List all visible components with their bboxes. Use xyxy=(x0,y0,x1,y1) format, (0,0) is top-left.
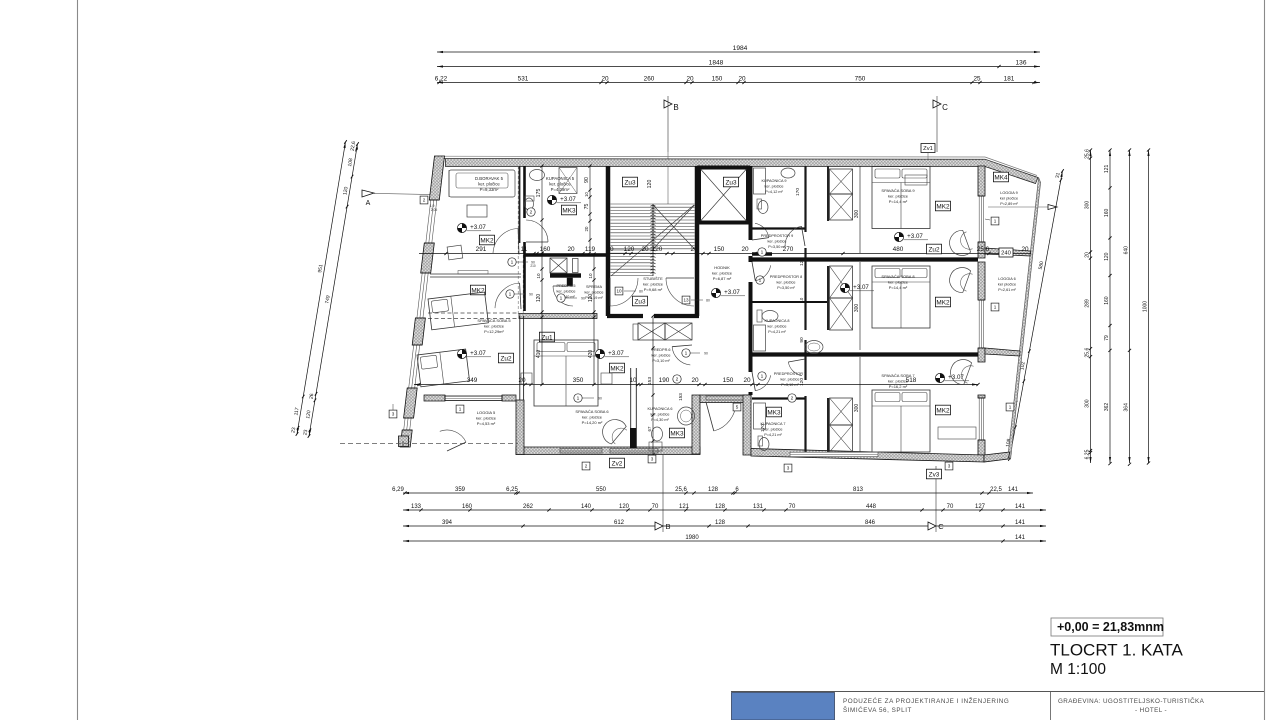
kupaonica8 wc xyxy=(762,311,778,322)
svg-text:2: 2 xyxy=(530,210,533,216)
kupaonica5 wc xyxy=(525,198,534,210)
vert dim line x594 10/120/420 xyxy=(593,254,595,385)
section marker B bottom xyxy=(655,522,663,530)
svg-text:11: 11 xyxy=(521,246,528,253)
closet x room9 xyxy=(830,169,853,194)
svg-text:75: 75 xyxy=(584,204,590,210)
svg-text:HODNIK: HODNIK xyxy=(714,265,730,270)
svg-text:136: 136 xyxy=(1015,59,1026,66)
svg-text:ker. pločice: ker. pločice xyxy=(765,184,784,188)
svg-text:120: 120 xyxy=(624,246,635,253)
tags stair doors xyxy=(615,287,623,295)
svg-text:ker. pločice: ker. pločice xyxy=(484,323,505,328)
svg-text:P=3,10 m²: P=3,10 m² xyxy=(781,383,799,387)
svg-text:2,05: 2,05 xyxy=(431,208,438,212)
svg-text:+3.07: +3.07 xyxy=(853,284,869,291)
svg-text:P=14,4 m²: P=14,4 m² xyxy=(889,199,908,204)
svg-text:150: 150 xyxy=(714,246,725,253)
svg-text:1: 1 xyxy=(459,407,462,412)
loggia5 top wall hatched xyxy=(424,395,445,401)
svg-text:Zu3: Zu3 xyxy=(624,179,635,186)
vert dims 90/10/75/20 x590 xyxy=(589,166,591,253)
svg-text:P=16,2 m²: P=16,2 m² xyxy=(889,384,908,389)
svg-text:MK3: MK3 xyxy=(767,409,781,416)
wall rooms8/7 divider y354 xyxy=(752,352,978,356)
kupaonica9 tub xyxy=(754,168,766,194)
svg-text:349: 349 xyxy=(467,377,478,384)
tag circle 1 predpr5 xyxy=(557,294,565,302)
svg-text:MK3: MK3 xyxy=(670,430,684,437)
svg-text:120: 120 xyxy=(647,180,653,189)
svg-text:25,6: 25,6 xyxy=(1085,149,1091,159)
svg-text:+3.07: +3.07 xyxy=(724,289,740,296)
svg-text:750: 750 xyxy=(855,75,866,82)
svg-text:1: 1 xyxy=(511,260,514,266)
closet x room7 xyxy=(830,398,853,425)
svg-text:M 1:100: M 1:100 xyxy=(1050,661,1106,678)
wall x521 lower soba5/soba6 double line xyxy=(519,316,521,400)
bottom dim chain 1 xyxy=(403,492,1033,494)
bottom dim chain 3 xyxy=(403,525,1046,527)
svg-text:141: 141 xyxy=(1015,520,1026,526)
svg-text:90: 90 xyxy=(598,397,602,401)
level marker room7 xyxy=(935,373,944,382)
svg-text:- HOTEL -: - HOTEL - xyxy=(1135,707,1167,714)
svg-text:141: 141 xyxy=(1015,504,1026,510)
svg-text:3: 3 xyxy=(787,466,790,471)
wall corridor bottom y316 black part xyxy=(607,314,643,318)
svg-text:20: 20 xyxy=(567,246,575,253)
svg-text:120: 120 xyxy=(619,504,630,510)
tag 3 left end xyxy=(389,410,397,418)
svg-text:612: 612 xyxy=(614,520,625,526)
label Zu1 xyxy=(539,332,554,342)
svg-text:2: 2 xyxy=(423,198,426,203)
right dim chain 1 xyxy=(1090,150,1092,463)
svg-text:P=6,87 m²: P=6,87 m² xyxy=(713,276,732,281)
svg-text:127: 127 xyxy=(975,504,986,510)
titleblock logo blue xyxy=(732,693,835,720)
desk room9 xyxy=(905,175,927,185)
svg-text:D.BORAVAK 5: D.BORAVAK 5 xyxy=(475,176,504,181)
door arc middle column xyxy=(553,286,573,306)
svg-text:20: 20 xyxy=(686,75,694,82)
nightstand tilted on chain xyxy=(447,245,463,260)
outer wall right loggia band xyxy=(978,166,985,196)
main dim chain y253 xyxy=(419,253,1031,255)
loggia5 right wall xyxy=(516,400,524,455)
kupaonica9 sink xyxy=(781,168,795,178)
svg-text:ker. pločice: ker. pločice xyxy=(768,239,787,243)
tag circle 1 soba6 xyxy=(574,394,582,402)
svg-text:2: 2 xyxy=(791,396,794,402)
svg-text:300: 300 xyxy=(854,304,860,313)
svg-text:ker. pločice: ker. pločice xyxy=(768,324,787,328)
vert dim 300 room8 xyxy=(859,262,861,350)
vert dim line x653 153/67 xyxy=(652,316,654,455)
svg-text:P=9,33m²: P=9,33m² xyxy=(480,187,499,192)
svg-text:P=4,53 m²: P=4,53 m² xyxy=(477,421,496,426)
svg-text:25,6: 25,6 xyxy=(675,487,687,493)
svg-text:ker. pločice: ker. pločice xyxy=(764,427,783,431)
level marker soba6 xyxy=(595,349,604,358)
section marker A left xyxy=(362,190,374,197)
bottom dim chain 2 xyxy=(403,509,1046,511)
svg-text:1000: 1000 xyxy=(1143,301,1149,312)
bed lower soba5 xyxy=(417,349,470,387)
section line B through landing xyxy=(667,152,669,204)
svg-text:ker. pločice: ker. pločice xyxy=(652,353,671,357)
svg-text:90: 90 xyxy=(584,177,590,183)
svg-text:128: 128 xyxy=(708,487,719,493)
svg-text:SPAVAĆA SOBA 6: SPAVAĆA SOBA 6 xyxy=(575,409,609,414)
svg-text:ker. pločice: ker. pločice xyxy=(712,270,733,275)
svg-text:170: 170 xyxy=(795,188,801,196)
svg-text:LOGGIA 5: LOGGIA 5 xyxy=(477,410,496,415)
svg-text:141: 141 xyxy=(1015,535,1026,541)
wall corridor right x750 xyxy=(749,166,753,240)
svg-text:SPAVAĆA SOBA 9: SPAVAĆA SOBA 9 xyxy=(881,188,915,193)
tag 2 bottom xyxy=(582,462,590,470)
outer wall top xyxy=(436,159,1038,184)
tag circle 1 predpr6 xyxy=(682,349,690,357)
loggia5 dashed open edge xyxy=(340,443,518,445)
vert dim line x542 10/120/410 xyxy=(541,254,543,385)
svg-text:+3.07: +3.07 xyxy=(470,350,486,357)
tag circle 2 kupaonica7 xyxy=(788,394,796,402)
wall corridor bottom y316 hatched part xyxy=(519,314,597,319)
sheet left border xyxy=(77,0,79,720)
svg-text:13: 13 xyxy=(683,298,689,303)
svg-text:20: 20 xyxy=(743,377,751,384)
vert dim 175 x542 xyxy=(541,166,543,253)
svg-text:C: C xyxy=(938,522,944,531)
label MK2 room7 xyxy=(935,405,950,415)
kupaonica6 sink xyxy=(678,407,695,425)
svg-text:MK2: MK2 xyxy=(610,365,624,372)
svg-text:90: 90 xyxy=(704,352,708,356)
svg-text:210: 210 xyxy=(530,264,536,268)
svg-text:STUBIŠTE: STUBIŠTE xyxy=(643,276,663,281)
wall bathroom5 bottom y255 xyxy=(524,254,608,257)
right slanted dim chain 31/580/102/156/108 xyxy=(1010,171,1063,459)
bathroom7 top wall xyxy=(752,397,805,399)
svg-text:P=12,29m²: P=12,29m² xyxy=(484,329,504,334)
kupaonica6 wc xyxy=(652,427,663,441)
svg-text:1: 1 xyxy=(577,396,580,402)
svg-text:P=3,50 m²: P=3,50 m² xyxy=(768,245,786,249)
svg-text:141: 141 xyxy=(1008,487,1019,493)
svg-text:10: 10 xyxy=(629,377,637,384)
wall stair/elevator x697 xyxy=(695,166,700,316)
doors middle-left room xyxy=(493,229,518,254)
kupaonica5 door arc xyxy=(526,220,548,242)
svg-text:MK2: MK2 xyxy=(936,407,950,414)
svg-text:P=4,21 m²: P=4,21 m² xyxy=(764,433,782,437)
tag circle 1 predprostor7 xyxy=(758,372,766,380)
loggia outer slanted edge xyxy=(1008,178,1041,460)
tag 1 loggia7 xyxy=(1006,403,1014,411)
svg-text:240: 240 xyxy=(1001,251,1011,257)
svg-text:+0,00 = 21,83mnm: +0,00 = 21,83mnm xyxy=(1057,620,1164,634)
right dim chain 4 xyxy=(1148,150,1150,463)
loggia divider 9/8 xyxy=(985,248,1031,256)
svg-text:P=3,10 m²: P=3,10 m² xyxy=(652,359,670,363)
closet walls right column verticals xyxy=(827,166,829,221)
boxed 240 label loggia xyxy=(999,248,1013,257)
tag circles MK2 room xyxy=(508,258,516,266)
svg-text:Zu3: Zu3 xyxy=(634,298,645,305)
svg-text:PREDPROSTOR 8: PREDPROSTOR 8 xyxy=(770,275,802,279)
dashed installation partition xyxy=(517,166,519,314)
entrance notch left wall xyxy=(692,395,700,454)
loggia5 top wall thin xyxy=(425,400,516,402)
svg-text:1: 1 xyxy=(509,292,512,298)
svg-text:140: 140 xyxy=(581,504,592,510)
outer wall bottom right portion xyxy=(751,449,984,463)
svg-text:LOGGIA 6: LOGGIA 6 xyxy=(998,277,1016,281)
svg-text:KUPAONICA 8: KUPAONICA 8 xyxy=(764,319,789,323)
svg-text:6,25: 6,25 xyxy=(1085,449,1091,459)
svg-text:20: 20 xyxy=(606,246,614,253)
stair landing doors xyxy=(610,278,638,306)
svg-text:90: 90 xyxy=(529,293,533,297)
tag 3 bottom right b xyxy=(945,462,953,470)
svg-text:SPAVAĆA SOBA 8: SPAVAĆA SOBA 8 xyxy=(881,274,915,279)
label MK3 kupaonica5 xyxy=(561,205,576,215)
svg-text:1: 1 xyxy=(761,250,764,256)
svg-text:+3.07: +3.07 xyxy=(608,350,624,357)
svg-text:P=9,68 m²: P=9,68 m² xyxy=(644,287,663,292)
kupaonica9 wc xyxy=(758,201,768,214)
armchair room8 xyxy=(946,264,974,294)
svg-text:10: 10 xyxy=(584,192,589,197)
svg-text:ker. pločice: ker. pločice xyxy=(888,279,909,284)
sprema door leaf xyxy=(573,259,579,273)
left slanted dimension chain inner xyxy=(309,144,358,436)
label Zu2 room9 xyxy=(926,244,941,254)
bathroom8 top wall xyxy=(752,301,828,303)
top dimension line 1848 / 136 xyxy=(437,66,1040,68)
svg-text:1: 1 xyxy=(1009,405,1012,410)
wall D.BORAVAK/KUPAONICA thin partition xyxy=(519,166,521,243)
top dimension line 1984 xyxy=(437,51,1040,53)
outer wall bottom left portion xyxy=(516,447,700,455)
outer wall bottom right corner piece xyxy=(984,452,1010,462)
svg-text:120: 120 xyxy=(799,378,805,386)
label MK3 kupaonica7 xyxy=(766,407,781,417)
titleblock top line xyxy=(731,691,1264,693)
tag circle 1 predprostor9 xyxy=(758,248,766,256)
svg-text:3: 3 xyxy=(948,464,951,469)
svg-text:150: 150 xyxy=(723,377,734,384)
stud wall predpr6/kupaonica6 x630 xyxy=(630,368,632,448)
mid-left dim chain y384 xyxy=(414,384,758,386)
svg-text:550: 550 xyxy=(596,487,607,493)
svg-text:10: 10 xyxy=(536,273,541,279)
predpr6 door xyxy=(672,347,690,365)
entrance notch top wall xyxy=(700,395,751,403)
kupaonica5 sink xyxy=(530,170,545,181)
closet X predpr6 xyxy=(638,323,665,340)
svg-text:128: 128 xyxy=(715,520,726,526)
svg-text:ker. pločice: ker. pločice xyxy=(557,289,576,293)
staircase center line xyxy=(652,204,654,276)
svg-text:160: 160 xyxy=(540,246,551,253)
svg-text:20: 20 xyxy=(690,246,698,253)
svg-text:153: 153 xyxy=(647,377,653,385)
tag circle 2 predpr6 xyxy=(673,375,681,383)
tag 2 left wall xyxy=(420,196,428,204)
level marker corridor xyxy=(711,288,720,297)
label MK3 kupaonica6 xyxy=(669,428,684,438)
tag 1 loggia5 xyxy=(456,405,464,413)
svg-text:MK2: MK2 xyxy=(936,299,950,306)
bottom wall openings left: window + Zv2 door xyxy=(560,449,602,454)
label Zv2 bottom xyxy=(609,458,624,468)
vert dim 300 room9 xyxy=(859,166,861,253)
svg-text:Zu2: Zu2 xyxy=(928,246,939,253)
elevator shaft xyxy=(699,168,748,223)
svg-text:1980: 1980 xyxy=(685,535,699,541)
svg-text:6,25: 6,25 xyxy=(506,487,518,493)
svg-text:121: 121 xyxy=(679,504,690,510)
desk room7 xyxy=(938,427,976,439)
svg-text:160: 160 xyxy=(1104,209,1110,218)
svg-text:SPAVAĆA SOBA 7: SPAVAĆA SOBA 7 xyxy=(881,373,915,378)
label Zu3 stair bottom xyxy=(632,296,647,306)
svg-text:190: 190 xyxy=(659,377,670,384)
wall bathrooms right x805 thin + dim line xyxy=(804,166,806,232)
svg-text:P=4,29m²: P=4,29m² xyxy=(551,187,570,192)
svg-text:120: 120 xyxy=(1104,252,1110,261)
svg-text:80: 80 xyxy=(706,299,710,303)
svg-text:70: 70 xyxy=(789,504,796,510)
right dim chain 2 xyxy=(1109,150,1111,463)
outer wall top face line xyxy=(437,155,986,158)
titleblock divider xyxy=(1050,692,1052,720)
staircase diagonals xyxy=(653,205,695,249)
svg-text:181: 181 xyxy=(1004,75,1015,82)
svg-text:10: 10 xyxy=(588,273,593,279)
svg-text:Zv3: Zv3 xyxy=(929,471,940,478)
staircase treads upper xyxy=(611,203,695,205)
bed room7 xyxy=(872,390,930,452)
label Zv3 xyxy=(926,469,941,479)
svg-text:KUPAONICA 6: KUPAONICA 6 xyxy=(647,407,672,411)
label MK2 soba6 xyxy=(609,363,624,373)
svg-text:300: 300 xyxy=(1085,399,1091,408)
bed upper soba5 xyxy=(428,292,488,330)
svg-text:B: B xyxy=(673,103,678,112)
entrance notch right wall xyxy=(743,395,751,455)
svg-text:ker. pločice: ker. pločice xyxy=(582,414,603,419)
svg-text:364: 364 xyxy=(1124,403,1130,412)
label Zu2 soba5 xyxy=(498,353,513,363)
svg-text:70: 70 xyxy=(947,504,954,510)
bathroom9 bottom wall xyxy=(752,227,805,229)
svg-text:160: 160 xyxy=(1104,296,1110,305)
svg-text:ker. pločice: ker. pločice xyxy=(777,280,796,284)
door hodnik to predprostor9 xyxy=(755,223,769,237)
soba7 door from predprostor xyxy=(788,362,802,376)
svg-text:MK2: MK2 xyxy=(936,203,950,210)
armchair room9 xyxy=(946,229,974,259)
loggia divider 8/7 xyxy=(985,348,1020,356)
label MK2 room8 xyxy=(935,297,950,307)
level marker soba5 xyxy=(457,349,466,358)
svg-text:PREDPR.6: PREDPR.6 xyxy=(652,348,671,352)
svg-text:350: 350 xyxy=(573,377,584,384)
svg-text:20: 20 xyxy=(691,377,699,384)
bed soba6 xyxy=(534,340,598,406)
svg-text:P=4,30 m²: P=4,30 m² xyxy=(651,418,669,422)
svg-text:300: 300 xyxy=(1085,201,1091,210)
svg-text:B: B xyxy=(665,522,670,531)
svg-text:70: 70 xyxy=(652,504,659,510)
staircase tread tick column xyxy=(651,205,654,206)
outer wall left (slanted with windows) xyxy=(429,156,444,200)
svg-text:PREDPROSTOR 9: PREDPROSTOR 9 xyxy=(761,234,793,238)
svg-text:MK4: MK4 xyxy=(994,174,1008,181)
vert dim 300 room7 xyxy=(859,357,861,452)
svg-text:20: 20 xyxy=(641,246,649,253)
tag 1 loggia9 xyxy=(991,217,999,225)
svg-text:20: 20 xyxy=(738,75,746,82)
svg-text:1: 1 xyxy=(994,305,997,310)
svg-text:Zv2: Zv2 xyxy=(612,460,623,467)
svg-text:Zu3: Zu3 xyxy=(725,179,736,186)
svg-text:MK2: MK2 xyxy=(480,237,494,244)
svg-text:448: 448 xyxy=(866,504,877,510)
svg-text:80: 80 xyxy=(639,290,643,294)
svg-text:ker. pločice: ker. pločice xyxy=(478,181,500,186)
svg-text:813: 813 xyxy=(853,487,864,493)
wall rooms9/8 divider y259 xyxy=(752,257,978,261)
svg-text:P=3,50 m²: P=3,50 m² xyxy=(777,286,795,290)
svg-text:153: 153 xyxy=(678,393,683,401)
svg-text:P=2,61 m²: P=2,61 m² xyxy=(998,288,1016,292)
right dim chain 3 xyxy=(1129,150,1131,463)
svg-text:ker. pločice: ker. pločice xyxy=(476,415,497,420)
svg-text:300: 300 xyxy=(854,404,860,413)
svg-text:291: 291 xyxy=(476,246,487,253)
armchair soba6 xyxy=(597,414,629,446)
svg-text:20: 20 xyxy=(741,246,749,253)
svg-text:Zu2: Zu2 xyxy=(500,355,511,362)
svg-text:GRAĐEVINA: UGOSTITELJSKO-TURI: GRAĐEVINA: UGOSTITELJSKO-TURISTIČKA xyxy=(1058,696,1205,705)
tag circle 1 predprostor8 xyxy=(756,276,764,284)
svg-text:ker. pločice: ker. pločice xyxy=(888,378,909,383)
kupaonica9 door xyxy=(785,226,802,246)
svg-text:ker. pločice: ker. pločice xyxy=(643,281,664,286)
tag 3 bottom right a xyxy=(784,464,792,472)
svg-text:20: 20 xyxy=(1085,252,1091,258)
svg-text:PODUZEĆE ZA PROJEKTIRANJE I IN: PODUZEĆE ZA PROJEKTIRANJE I INŽENJERING xyxy=(843,696,1009,705)
svg-text:20: 20 xyxy=(1021,246,1029,253)
svg-text:67: 67 xyxy=(647,426,652,431)
wall corridor top y253 right part xyxy=(752,252,772,255)
level note box +0,00 xyxy=(1051,618,1163,636)
svg-text:LOGGIA 9: LOGGIA 9 xyxy=(1000,191,1018,195)
svg-text:ker. pločice: ker. pločice xyxy=(549,181,571,186)
kupaonica8 sink xyxy=(805,341,823,354)
label Zv1 top xyxy=(921,144,935,153)
svg-text:25,6: 25,6 xyxy=(977,246,990,253)
svg-text:20: 20 xyxy=(518,377,526,384)
svg-text:394: 394 xyxy=(442,520,453,526)
svg-text:120: 120 xyxy=(799,258,805,266)
